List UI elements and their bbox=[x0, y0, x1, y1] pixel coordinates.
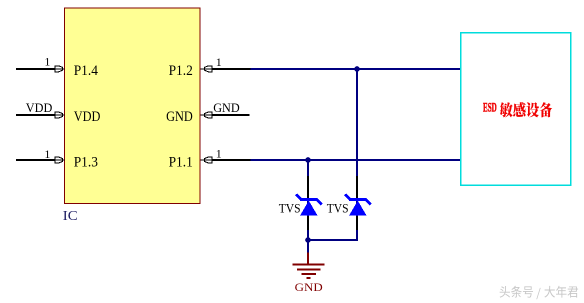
TVS diode D1 pin (cathode, black) bbox=[307, 176, 309, 199]
watermark char 号 bbox=[523, 286, 533, 297]
ESD box label char 设 bbox=[526, 102, 539, 117]
svg-text:1: 1 bbox=[216, 146, 222, 160]
junction node at ground stub bbox=[305, 237, 311, 243]
pin VDD wire (left row 2) bbox=[16, 114, 55, 116]
wire net P1.2 to ESD device (top horizontal) bbox=[251, 68, 461, 70]
TVS diode D1 pin (anode, black) bbox=[307, 216, 309, 230]
svg-text:GND: GND bbox=[295, 282, 323, 294]
junction node on P1.2 net bbox=[354, 66, 360, 72]
TVS diode D1 symbol bbox=[296, 194, 321, 215]
TVS diode D2 symbol bbox=[345, 194, 370, 215]
junction node on P1.1 net bbox=[305, 157, 311, 163]
watermark char 头 bbox=[500, 286, 510, 298]
svg-text:1: 1 bbox=[44, 147, 50, 161]
wire vertical drop to TVS D2 bbox=[356, 69, 358, 240]
watermark char 年 bbox=[556, 286, 567, 298]
svg-text:VDD: VDD bbox=[26, 101, 53, 115]
svg-text:1: 1 bbox=[44, 55, 50, 69]
wire stub to ground bbox=[307, 240, 309, 255]
pin GND wire stub (right row 2) bbox=[212, 114, 250, 116]
watermark 头条号 / 大年君 bbox=[500, 286, 578, 300]
TVS diode D2 pin (anode, black) bbox=[356, 216, 358, 230]
svg-text:P1.1: P1.1 bbox=[169, 155, 193, 171]
svg-text:ESD: ESD bbox=[483, 101, 497, 115]
IC body U1 bbox=[65, 8, 201, 204]
watermark char 大 bbox=[544, 286, 555, 298]
pin GND input arrow bbox=[201, 112, 212, 118]
svg-text:VDD: VDD bbox=[74, 109, 101, 125]
pin P1.2 wire stub (right row 1) bbox=[212, 68, 252, 70]
watermark char 条 bbox=[511, 286, 522, 298]
ESD box label char 备 bbox=[540, 102, 553, 117]
pin P1.3 wire (left row 3) bbox=[16, 159, 55, 161]
TVS diode D2 pin (cathode, black) bbox=[356, 176, 358, 199]
pin P1.4 wire (left row 1) bbox=[16, 68, 55, 70]
pin P1.2 input arrow bbox=[201, 66, 212, 72]
ESD sensitive device box bbox=[461, 33, 571, 186]
svg-text:TVS: TVS bbox=[327, 201, 349, 216]
svg-text:GND: GND bbox=[166, 109, 193, 125]
watermark char 君 bbox=[568, 286, 579, 297]
svg-text:IC: IC bbox=[63, 208, 78, 223]
ESD box label char 感 bbox=[513, 102, 526, 117]
svg-text:P1.4: P1.4 bbox=[74, 63, 98, 79]
wire bottom horizontal joining TVS anodes bbox=[308, 239, 358, 241]
wire vertical drop to TVS D1 bbox=[307, 160, 309, 240]
pin P1.3 input arrow bbox=[55, 157, 64, 163]
svg-text:GND: GND bbox=[213, 101, 240, 115]
svg-text:TVS: TVS bbox=[279, 201, 301, 216]
pin P1.1 input arrow bbox=[201, 157, 212, 163]
watermark slash bbox=[536, 288, 540, 299]
svg-text:P1.3: P1.3 bbox=[74, 155, 98, 171]
pin P1.1 wire stub (right row 3) bbox=[212, 159, 252, 161]
wire net P1.1 to ESD device (lower horizontal) bbox=[251, 159, 461, 161]
pin VDD input arrow bbox=[55, 112, 64, 118]
svg-text:P1.2: P1.2 bbox=[169, 63, 193, 79]
svg-text:1: 1 bbox=[216, 55, 222, 69]
ESD box label char 敏 bbox=[500, 102, 513, 117]
pin P1.4 input arrow bbox=[55, 66, 64, 72]
ground symbol GND bbox=[293, 253, 325, 279]
